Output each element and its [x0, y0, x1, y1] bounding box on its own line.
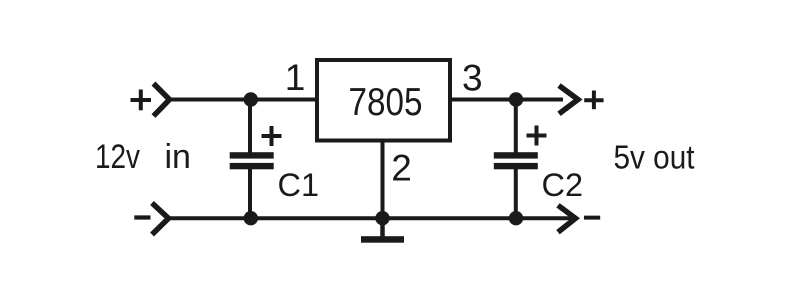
svg-text:C2: C2 [542, 167, 584, 203]
input + terminal sign [131, 90, 152, 111]
ground symbol bar [361, 236, 404, 243]
wire C2 bottom lead [514, 169, 518, 218]
wire input top rail [168, 98, 319, 102]
svg-text:5v out: 5v out [614, 139, 695, 176]
ground stub wire [380, 218, 385, 236]
C2 polarity + sign [527, 126, 547, 146]
wire C1 bottom lead [248, 169, 252, 218]
svg-text:12v: 12v [95, 138, 140, 176]
capacitor C1 plates [230, 152, 274, 169]
node junction input/C1 top [244, 92, 258, 106]
svg-text:7805: 7805 [349, 81, 423, 124]
svg-text:in: in [165, 138, 191, 176]
output - terminal sign [584, 216, 600, 220]
input - terminal sign [134, 215, 150, 219]
output arrow bottom (chevron) [558, 205, 576, 232]
capacitor C2 plates [494, 152, 538, 169]
output + terminal sign [584, 91, 603, 110]
output arrow top (chevron) [559, 86, 578, 114]
op-amp U1 7805 regulator box [317, 60, 450, 141]
node junction C1 bottom [244, 211, 258, 225]
wire pin 3 output rail [450, 98, 563, 102]
wire C2 top lead [514, 100, 518, 154]
svg-text:1: 1 [285, 57, 306, 98]
node junction output/C2 top [509, 92, 523, 106]
input arrow bottom (chevron) [152, 203, 169, 235]
C1 polarity + sign [262, 126, 282, 146]
node junction C2 bottom [509, 211, 523, 225]
svg-text:3: 3 [462, 57, 483, 98]
wire bottom rail [168, 216, 576, 220]
wire pin 2 lead [381, 140, 385, 218]
svg-text:2: 2 [391, 147, 412, 188]
node junction ground [375, 211, 389, 225]
input arrow top (chevron) [154, 84, 170, 117]
svg-text:C1: C1 [278, 167, 320, 203]
wire C1 top lead [248, 100, 252, 154]
